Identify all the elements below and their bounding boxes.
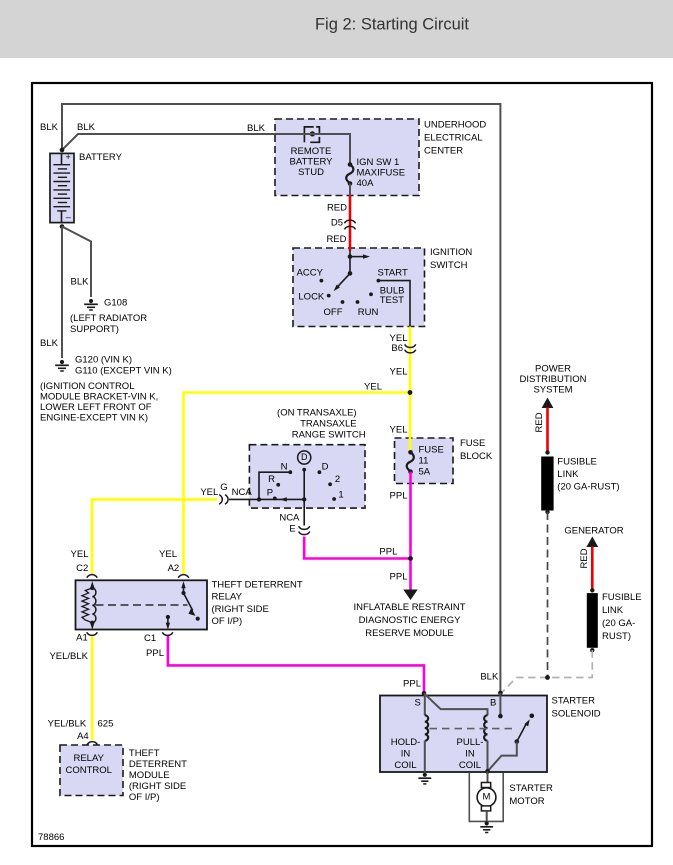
svg-text:G: G [220,482,227,493]
svg-text:COIL: COIL [394,760,416,771]
svg-text:THEFT DETERRENT: THEFT DETERRENT [212,580,303,591]
wire BLK battery positive to remote battery stud [62,134,312,150]
svg-text:625: 625 [98,719,114,730]
svg-text:SOLENOID: SOLENOID [552,709,601,720]
svg-text:D: D [322,462,329,473]
svg-text:FUSIBLE: FUSIBLE [602,592,642,603]
connector A2 [178,575,189,578]
wire S to pull-in coil [424,693,488,715]
svg-text:YEL: YEL [200,487,218,498]
svg-text:PPL: PPL [390,491,408,502]
svg-text:–: – [66,212,71,222]
svg-text:POWER: POWER [535,364,571,375]
svg-text:IGN SW 1: IGN SW 1 [357,157,400,168]
ignition switch internals [320,247,411,327]
svg-text:YEL: YEL [159,549,177,560]
svg-text:G120 (VIN K): G120 (VIN K) [75,355,132,366]
fusible link 2 [587,593,598,648]
svg-text:D5: D5 [331,218,343,229]
svg-text:RUST): RUST) [602,631,631,642]
svg-text:A4: A4 [77,731,89,742]
svg-text:LOCK: LOCK [298,292,325,303]
svg-text:COIL: COIL [459,760,481,771]
svg-text:M: M [483,792,491,803]
svg-text:CONTROL: CONTROL [65,765,111,776]
svg-text:MODULE BRACKET-VIN K,: MODULE BRACKET-VIN K, [40,392,158,403]
svg-text:OF I/P): OF I/P) [212,616,243,627]
svg-text:YEL/BLK: YEL/BLK [48,719,87,730]
node above fusible link 2 [590,588,594,592]
svg-text:(20 GA-RUST): (20 GA-RUST) [557,482,619,493]
underhood electrical center box [275,119,419,196]
connector A1 [87,632,98,635]
svg-text:RANGE SWITCH: RANGE SWITCH [292,430,366,441]
fusible link 1 [541,457,553,511]
ignition switch box [293,248,425,327]
svg-text:B: B [490,698,496,709]
starter motor [477,771,496,821]
connector G [219,495,228,505]
svg-text:FUSE: FUSE [460,438,485,449]
svg-text:PPL: PPL [390,572,408,583]
svg-text:P: P [267,487,273,498]
svg-text:BLK: BLK [480,672,499,683]
svg-text:E: E [289,524,295,535]
theft deterrent module box [60,745,123,796]
svg-text:(LEFT RADIATOR: (LEFT RADIATOR [70,313,147,324]
svg-text:S: S [414,698,420,709]
svg-text:REMOTE: REMOTE [291,146,332,157]
wire RED to fusible link 1 [546,408,549,453]
svg-text:BATTERY: BATTERY [290,157,334,168]
svg-text:DIAGNOSTIC ENERGY: DIAGNOSTIC ENERGY [359,615,462,626]
ground G120 [55,360,69,371]
wire YEL branch to relay C2 [92,499,218,574]
svg-text:STARTER: STARTER [552,696,596,707]
svg-text:DETERRENT: DETERRENT [129,759,187,770]
arrow to inflatable restraint module [403,590,417,601]
svg-text:SWITCH: SWITCH [430,260,468,271]
svg-text:INFLATABLE RESTRAINT: INFLATABLE RESTRAINT [353,602,465,613]
wire YEL ignition switch to fuse block [409,327,412,452]
svg-text:TRANSAXLE: TRANSAXLE [300,419,357,430]
svg-text:LINK: LINK [557,469,579,480]
svg-text:BLK: BLK [77,122,96,133]
svg-text:PPL: PPL [403,679,421,690]
relay linkage dashed [96,604,188,606]
svg-text:OFF: OFF [324,307,343,318]
svg-text:(IGNITION CONTROL: (IGNITION CONTROL [40,381,134,392]
svg-text:A2: A2 [168,563,180,574]
wire NCA into range switch [229,498,304,500]
svg-text:R: R [268,474,275,485]
svg-text:STARTER: STARTER [509,783,553,794]
svg-text:+: + [66,152,71,162]
arrow to generator [586,537,598,548]
svg-text:STUD: STUD [298,167,324,178]
pull-in coil [484,715,487,771]
wire YEL horizontal to transaxle branch [184,393,411,575]
hold-in coil [425,693,428,772]
svg-text:C2: C2 [76,563,88,574]
connector D5 [344,220,355,229]
node S terminal [422,691,427,696]
starter solenoid box [380,696,547,773]
svg-text:RED: RED [579,548,590,568]
svg-text:START: START [378,268,408,279]
svg-text:LOWER LEFT FRONT OF: LOWER LEFT FRONT OF [40,402,152,413]
svg-text:ACCY: ACCY [297,268,324,279]
svg-text:C1: C1 [144,633,156,644]
svg-text:FUSE: FUSE [419,445,444,456]
svg-text:RED: RED [326,234,346,245]
svg-text:11: 11 [419,456,429,467]
svg-text:RELAY: RELAY [212,592,243,603]
svg-text:40A: 40A [357,178,375,189]
ground G108 [84,299,98,310]
svg-text:MAXIFUSE: MAXIFUSE [357,168,406,179]
svg-text:RESERVE MODULE: RESERVE MODULE [365,628,454,639]
wire from range switch to E connector [303,499,305,525]
relay C1 terminal [166,615,170,630]
node battery positive [60,148,65,153]
node PPL junction [408,556,413,561]
svg-text:YEL: YEL [390,367,408,378]
relay coil and resistor [82,581,96,629]
svg-text:LINK: LINK [602,605,624,616]
starter motor enclosure [469,773,503,822]
svg-text:BLK: BLK [40,122,59,133]
svg-text:SUPPORT): SUPPORT) [70,324,119,335]
node pull-in coil to motor [485,769,490,774]
battery [50,152,74,223]
svg-text:PPL: PPL [146,648,164,659]
remote battery stud [304,127,319,142]
svg-text:OF I/P): OF I/P) [129,792,160,803]
svg-text:IN: IN [401,749,411,760]
svg-text:Fig 2: Starting Circuit: Fig 2: Starting Circuit [315,16,469,34]
svg-text:78866: 78866 [38,832,64,843]
svg-text:NCA: NCA [232,487,253,498]
transaxle range switch box [249,445,365,508]
wire BLK dashed from fusible link 1 [547,512,549,678]
wire YEL/BLK relay A1 down to module A4 [91,636,94,740]
wire stud to maxifuse [274,134,350,164]
fuse block box [395,438,454,484]
svg-text:(RIGHT SIDE: (RIGHT SIDE [129,781,186,792]
solenoid contact and arm [488,714,535,772]
svg-text:YEL: YEL [71,549,89,560]
svg-text:YEL/BLK: YEL/BLK [49,651,88,662]
svg-text:MOTOR: MOTOR [509,796,544,807]
connector C1 [162,632,173,635]
solenoid linkage dashed [430,728,517,730]
svg-text:2: 2 [335,474,340,485]
theft deterrent relay box [76,580,208,629]
svg-text:D: D [301,452,308,462]
wire RED maxifuse to ignition switch [349,196,352,258]
svg-text:BLK: BLK [247,123,266,134]
relay switch arm [181,581,199,621]
svg-text:TEST: TEST [380,295,404,306]
range switch internals [257,451,336,502]
node B terminal inner [498,714,503,719]
svg-text:5A: 5A [419,467,431,478]
node BLK at solenoid B [498,691,503,696]
svg-text:SYSTEM: SYSTEM [533,385,572,396]
svg-text:A1: A1 [76,633,88,644]
fuse 11 5A [407,437,414,474]
svg-text:B6: B6 [391,343,403,354]
svg-text:GENERATOR: GENERATOR [564,526,623,537]
svg-text:BATTERY: BATTERY [79,152,123,163]
svg-text:UNDERHOOD: UNDERHOOD [424,120,486,131]
arrow to power distribution system [542,398,554,409]
svg-text:(RIGHT SIDE: (RIGHT SIDE [212,604,269,615]
wire BLK battery negative to G120 [61,227,63,359]
svg-text:FUSIBLE: FUSIBLE [557,457,597,468]
svg-text:THEFT: THEFT [129,748,160,759]
connector C2 [87,575,98,578]
svg-text:RUN: RUN [358,307,379,318]
connector B6 [405,344,416,352]
fuse IGN SW 1 MAXIFUSE 40A [346,162,353,195]
svg-text:YEL: YEL [364,382,382,393]
connector E [299,526,310,534]
svg-text:RELAY: RELAY [73,753,104,764]
svg-text:RED: RED [327,203,347,214]
svg-text:IGNITION: IGNITION [430,247,472,258]
title banner [0,0,673,58]
node yellow junction [408,390,413,395]
node below fusible link 2 [590,648,594,652]
svg-text:DISTRIBUTION: DISTRIBUTION [519,374,586,385]
ground below hold-in coil [418,773,431,784]
connector A4 [87,742,98,745]
svg-text:(ON TRANSAXLE): (ON TRANSAXLE) [277,408,357,419]
svg-text:RED: RED [534,412,545,432]
ground below starter motor [480,821,493,832]
svg-text:G108: G108 [104,298,127,309]
wire PPL fuse block down to module arrow [409,472,412,590]
svg-text:ENGINE-EXCEPT VIN K): ENGINE-EXCEPT VIN K) [40,413,148,424]
node above fusible link 1 [545,450,549,454]
svg-text:IN: IN [465,749,475,760]
wire RED to fusible link 2 [591,547,594,591]
wire B terminal into solenoid [499,693,501,716]
svg-text:MODULE: MODULE [129,770,170,781]
wire BLK battery negative to G108 [62,227,91,298]
svg-text:BLK: BLK [71,277,90,288]
svg-text:PPL: PPL [379,547,397,558]
node battery negative [60,224,65,229]
wire PPL relay C1 to starter solenoid S [168,636,424,693]
svg-text:YEL: YEL [390,425,408,436]
wire dashed light from fusible link 2 to junction [502,650,593,692]
node dashed junction [545,675,550,680]
svg-text:CENTER: CENTER [424,146,463,157]
svg-text:PULL-: PULL- [457,737,484,748]
svg-text:BLOCK: BLOCK [460,451,493,462]
svg-text:ELECTRICAL: ELECTRICAL [424,133,483,144]
svg-text:N: N [281,462,288,473]
svg-text:HOLD-: HOLD- [391,737,421,748]
node below fusible link 1 [545,510,549,514]
svg-text:G110 (EXCEPT VIN K): G110 (EXCEPT VIN K) [75,366,172,377]
svg-text:NCA: NCA [279,513,300,524]
svg-text:BLK: BLK [40,338,59,349]
wire PPL from E to junction [304,537,410,559]
svg-text:(20 GA-: (20 GA- [602,618,635,629]
wire BLK battery positive to top run and down to starter solenoid B [62,104,500,716]
svg-text:1: 1 [338,490,343,501]
